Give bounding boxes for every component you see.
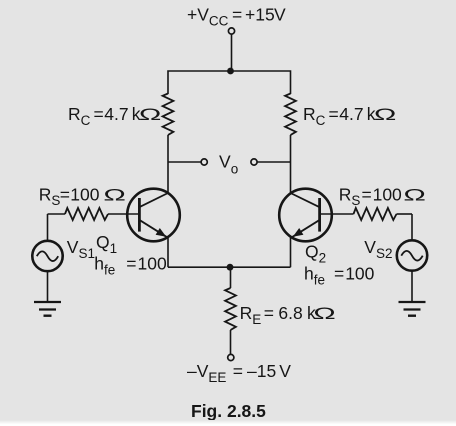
junction top rail: [227, 68, 234, 75]
junction emitter rail: [227, 264, 234, 271]
+VCC supply terminal: [228, 28, 234, 34]
wire RS2 to VS2: [411, 214, 413, 240]
svg-text:RS=100: RS=100: [39, 184, 100, 208]
svg-text:Q2: Q2: [305, 242, 326, 266]
svg-text:RE=6.8k: RE=6.8k: [240, 303, 316, 327]
svg-text:RS=100: RS=100: [339, 184, 402, 208]
svg-text:RC=4.7k: RC=4.7k: [303, 104, 376, 128]
svg-text:Ω: Ω: [103, 186, 126, 205]
svg-text:Q1: Q1: [96, 232, 117, 256]
resistor RC2: [285, 94, 296, 136]
top rail wire: [168, 71, 291, 94]
svg-text:Vo: Vo: [219, 152, 238, 177]
svg-text:+VCC=+15V: +VCC=+15V: [187, 5, 286, 29]
svg-text:–VEE=–15V: –VEE=–15V: [187, 361, 291, 385]
svg-text:Fig. 2.8.5: Fig. 2.8.5: [191, 401, 266, 421]
source VS1: [32, 241, 62, 271]
resistor RC1: [163, 94, 174, 136]
wire RC2 to Q2 collector: [290, 135, 292, 193]
svg-text:Ω: Ω: [139, 105, 162, 124]
resistor RE: [225, 288, 236, 330]
Vo left terminal: [201, 159, 207, 165]
source VS2: [397, 240, 427, 270]
wire RC1 to Q1 collector: [167, 135, 169, 193]
svg-text:hfe=100: hfe=100: [304, 264, 375, 288]
resistor RS2: [321, 208, 412, 220]
svg-text:Ω: Ω: [403, 186, 426, 205]
ground left: [34, 302, 61, 316]
resistor RS1: [48, 208, 139, 220]
svg-text:Ω: Ω: [313, 304, 336, 323]
wire VS2 to ground: [411, 271, 413, 302]
emitter rail wire: [168, 266, 291, 268]
transistor Q2: [279, 189, 332, 242]
wire Q2 emitter down: [290, 237, 292, 267]
wire Q1 emitter down: [167, 237, 169, 267]
ground right: [399, 302, 426, 316]
Vo tap right wire: [257, 161, 291, 163]
Vo tap left wire: [168, 161, 201, 163]
Vo right terminal: [251, 159, 257, 165]
transistor Q1: [127, 189, 180, 242]
svg-text:RC=4.7k: RC=4.7k: [68, 104, 141, 128]
wire VCC terminal to top rail: [231, 34, 233, 71]
wire RS1 to VS1: [47, 214, 49, 241]
svg-text:hfe=100: hfe=100: [94, 254, 167, 278]
wire RE to VEE terminal: [230, 330, 232, 354]
-VEE supply terminal: [228, 354, 234, 360]
svg-text:VS2: VS2: [364, 237, 392, 261]
svg-text:Ω: Ω: [374, 105, 397, 124]
svg-text:VS1: VS1: [67, 237, 95, 261]
wire emitter rail to RE: [230, 267, 232, 288]
wire VS1 to ground: [47, 271, 49, 302]
